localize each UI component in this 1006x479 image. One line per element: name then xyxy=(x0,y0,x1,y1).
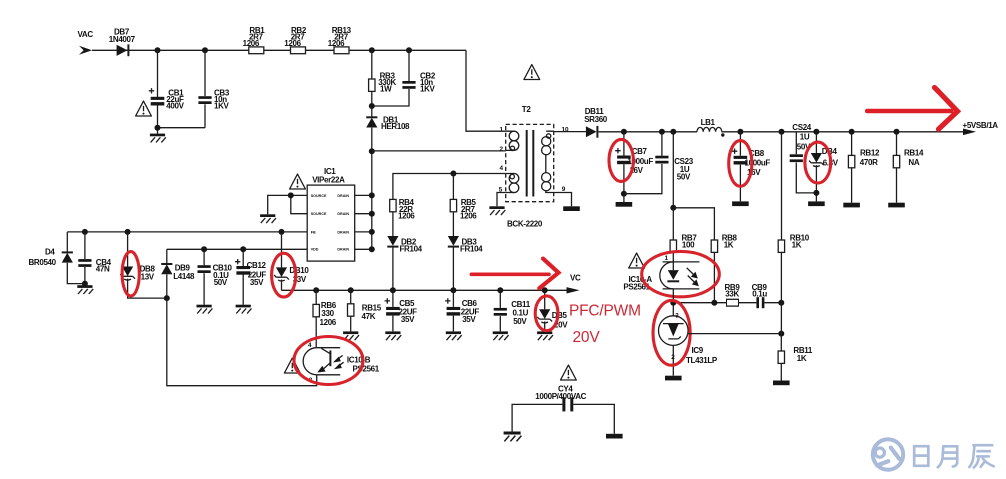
zener diode DB10 xyxy=(281,232,283,268)
node junction CB4/FB rail xyxy=(82,229,88,235)
wire top rail left xyxy=(92,49,466,51)
ground secondary at CY4 right xyxy=(606,434,623,439)
node junction source pins xyxy=(288,192,294,198)
ground secondary under IC9 xyxy=(665,376,682,381)
resistor RB15 xyxy=(350,290,352,304)
resistor RB3 xyxy=(371,50,373,79)
wire FB rail xyxy=(67,231,307,233)
svg-text:FB: FB xyxy=(311,230,316,234)
svg-text:35V: 35V xyxy=(462,315,476,324)
warning triangle near IC10-A xyxy=(629,253,645,268)
svg-text:2: 2 xyxy=(500,146,504,153)
zener diode DB4 xyxy=(815,132,817,153)
wire feedback drop from rail xyxy=(672,132,674,208)
ground primary under RB15 xyxy=(343,331,359,340)
diode IC10-A opto LED xyxy=(663,262,700,289)
zener diode DB5 xyxy=(544,290,546,309)
ground primary at CY4 left xyxy=(504,432,522,442)
svg-text:35V: 35V xyxy=(250,278,264,287)
node junction RB12/rail xyxy=(849,129,855,135)
ground secondary at T2 pin9 xyxy=(563,206,580,211)
node junction drain pin 4 xyxy=(369,246,375,252)
svg-text:VIPer22A: VIPer22A xyxy=(312,175,345,184)
node junction RB3/top rail xyxy=(369,47,375,53)
svg-text:L4148: L4148 xyxy=(173,272,195,281)
svg-text:NA: NA xyxy=(908,158,919,167)
resistor RB4 xyxy=(390,199,396,211)
capacitor CB10 xyxy=(203,249,205,304)
svg-text:VC: VC xyxy=(570,274,581,283)
node junction DB3/CB6/VC rail xyxy=(450,287,456,293)
svg-text:SOURCE: SOURCE xyxy=(311,194,327,198)
red circle annotation around DB4 xyxy=(805,142,831,183)
node junction RB10 drop/rail xyxy=(779,129,785,135)
watermark logo circle xyxy=(873,439,903,469)
red circle annotation around IC10-B xyxy=(294,337,363,385)
wire SOURCE pins to ground xyxy=(268,195,308,214)
wire IC9 cathode to ground xyxy=(672,345,674,375)
capacitor CB8 xyxy=(739,132,741,202)
red circle annotation around CB7 xyxy=(609,139,633,181)
wire T2 pin10 out xyxy=(554,131,586,133)
svg-text:1000uF: 1000uF xyxy=(745,159,771,168)
svg-text:1206: 1206 xyxy=(320,318,337,327)
svg-text:1000P/400VAC: 1000P/400VAC xyxy=(535,392,586,401)
resistor RB6 xyxy=(315,290,317,304)
diode D4 BR0540 xyxy=(66,232,68,252)
capacitor CB12 xyxy=(242,249,244,304)
watermark character yue xyxy=(938,446,957,467)
wire secondary output rail xyxy=(598,131,963,133)
ground primary at IC1 source xyxy=(260,214,276,223)
transformer T2 primary winding pins 1-2 xyxy=(506,131,515,150)
svg-text:1000uF: 1000uF xyxy=(627,157,653,166)
ground secondary under CB8 xyxy=(732,201,749,206)
svg-text:1K: 1K xyxy=(724,241,734,250)
ground primary under CB10 xyxy=(197,305,213,314)
node junction RB8 bottom xyxy=(711,300,717,306)
node junction DB5/VC rail xyxy=(542,287,548,293)
wire IC9 ref line xyxy=(688,333,781,335)
capacitor CS23 xyxy=(624,132,662,194)
warning triangle above CY4 xyxy=(561,365,577,380)
warning triangle near IC1 xyxy=(290,174,306,189)
node junction RB3/CB2/DB1 xyxy=(369,103,375,109)
capacitor CB5 xyxy=(392,290,394,331)
node junction CB12/VDD rail xyxy=(240,246,246,252)
resistor RB2 xyxy=(291,47,306,54)
svg-text:47N: 47N xyxy=(96,265,110,274)
svg-text:FR104: FR104 xyxy=(460,244,483,253)
svg-text:VDD: VDD xyxy=(311,248,319,252)
ground primary under DB5 xyxy=(537,331,553,340)
ground primary under CB4 xyxy=(84,284,86,286)
wire DRAIN pins to drain vertical xyxy=(355,195,372,249)
resistor RB10 xyxy=(781,132,783,240)
svg-text:4: 4 xyxy=(308,342,312,349)
inductor LB1 xyxy=(697,127,722,131)
wire T2 pin4 line xyxy=(393,174,506,200)
node junction LED cathode / RB9 xyxy=(670,300,676,306)
svg-text:DRAIN: DRAIN xyxy=(337,194,349,198)
ground primary at T2 pin5 xyxy=(489,206,505,215)
red circle annotation around DB10 xyxy=(272,253,296,297)
svg-text:35V: 35V xyxy=(401,315,415,324)
svg-text:4: 4 xyxy=(500,165,504,172)
resistor RB9 xyxy=(727,299,739,306)
node junction CS23/rail xyxy=(659,129,665,135)
svg-text:1KV: 1KV xyxy=(214,102,230,111)
svg-text:VAC: VAC xyxy=(78,30,94,39)
resistor RB8 xyxy=(711,240,717,252)
red arrow annotation at output xyxy=(867,109,951,114)
transformer T2 secondary winding pins 10-9 xyxy=(546,131,554,192)
svg-text:1206: 1206 xyxy=(243,39,260,48)
node junction DB4/rail xyxy=(813,129,819,135)
node junction CB2/top rail xyxy=(406,47,412,53)
svg-text:400V: 400V xyxy=(166,102,184,111)
node junction RB14/rail xyxy=(894,129,900,135)
node junction DB10/FB rail xyxy=(279,229,285,235)
node junction DB8/DB9 bottom xyxy=(164,295,170,301)
svg-text:PFC/PWM: PFC/PWM xyxy=(569,303,641,320)
wire CB1/CB3 bottom join xyxy=(158,128,206,134)
svg-text:D4: D4 xyxy=(45,248,55,257)
node junction CB10/VDD rail xyxy=(201,246,207,252)
node junction CB7/rail xyxy=(621,129,627,135)
svg-text:1206: 1206 xyxy=(284,39,301,48)
node junction CS24/DB4 bottom xyxy=(813,190,819,196)
svg-text:50V: 50V xyxy=(214,278,228,287)
svg-text:IC9: IC9 xyxy=(692,346,704,355)
node junction ref/RB10-RB11 xyxy=(778,331,784,337)
capacitor CB6 xyxy=(452,290,454,331)
svg-text:1206: 1206 xyxy=(398,212,415,221)
svg-text:50V: 50V xyxy=(677,173,691,182)
ground primary under CB5 xyxy=(385,331,401,340)
wire top rail right corner to T2 pin1 xyxy=(466,50,506,131)
node junction CB9/RB10 line xyxy=(778,300,784,306)
svg-text:DRAIN: DRAIN xyxy=(337,248,349,252)
svg-text:1K: 1K xyxy=(792,241,802,250)
resistor RB7 xyxy=(672,208,674,240)
ground primary under CB1 xyxy=(150,134,166,143)
svg-text:1K: 1K xyxy=(797,354,807,363)
ground secondary under RB11 xyxy=(773,381,790,386)
ground secondary under CB7 xyxy=(623,194,625,202)
svg-text:T2: T2 xyxy=(522,105,532,114)
wire VC arrowhead xyxy=(567,287,580,293)
svg-text:BR0540: BR0540 xyxy=(29,258,57,267)
op-amp U1 / controller IC1 VIPer22A box xyxy=(307,185,355,261)
svg-text:1206: 1206 xyxy=(328,39,345,48)
diode DB7 xyxy=(117,45,128,56)
ground primary under CB6 xyxy=(446,331,462,340)
resistor RB1 xyxy=(249,47,264,54)
red circle annotation around IC10-A xyxy=(642,251,720,296)
wire VDD rail xyxy=(167,248,307,250)
wire opto loop left xyxy=(167,298,317,386)
zener diode DB8 xyxy=(127,232,129,267)
diode DB2 FR104 xyxy=(387,236,398,247)
capacitor CB4 xyxy=(84,232,86,284)
svg-text:DB10: DB10 xyxy=(289,266,309,275)
capacitor CS24 xyxy=(796,132,816,193)
resistor RB13 xyxy=(334,47,349,54)
capacitor CB11 xyxy=(499,290,501,331)
red circle annotation around IC9 xyxy=(653,300,690,365)
svg-text:+5VSB/1A: +5VSB/1A xyxy=(963,121,999,130)
capacitor CB7 xyxy=(623,132,625,194)
capacitor CB9 xyxy=(756,297,759,308)
ground secondary under DB4 xyxy=(808,201,825,206)
wire VAC input arrow xyxy=(79,46,92,55)
node junction CB1/top rail xyxy=(155,47,161,53)
svg-text:BCK-2220: BCK-2220 xyxy=(507,220,543,229)
wire RB8 branch top xyxy=(673,208,714,240)
svg-text:SR360: SR360 xyxy=(584,115,608,124)
resistor RB14 xyxy=(896,132,898,156)
node junction CB4 bottom xyxy=(82,281,88,287)
node junction CB7 bottom xyxy=(621,191,627,197)
transformer T2 core lines xyxy=(527,130,534,197)
watermark character ri xyxy=(914,446,928,466)
node junction RB5 / pin4 line xyxy=(450,171,456,177)
node junction CB3/top rail xyxy=(202,47,208,53)
diode DB9 L4148 xyxy=(166,249,168,263)
svg-text:1: 1 xyxy=(665,255,669,262)
transformer T2 aux winding pins 4-5 xyxy=(506,174,515,193)
svg-text:1N4007: 1N4007 xyxy=(109,35,136,44)
svg-text:1W: 1W xyxy=(380,85,392,94)
svg-text:LB1: LB1 xyxy=(701,118,716,127)
wire T2 pin2 line xyxy=(372,150,506,152)
svg-text:CS24: CS24 xyxy=(792,123,812,132)
red circle annotation around CB8 xyxy=(729,141,752,187)
resistor RB11 xyxy=(780,334,782,351)
warning triangle near CB1 xyxy=(136,101,152,116)
svg-text:RB12: RB12 xyxy=(860,148,880,157)
watermark character chen xyxy=(969,445,994,467)
svg-text:10: 10 xyxy=(562,127,570,134)
node junction drain pin 3 xyxy=(369,229,375,235)
svg-text:DB5: DB5 xyxy=(552,311,568,320)
wire RB9 row xyxy=(673,302,781,304)
ground secondary under RB14 xyxy=(888,203,905,208)
svg-text:FR104: FR104 xyxy=(400,244,423,253)
wire T2 pin5 to ground xyxy=(497,193,506,207)
svg-text:HER108: HER108 xyxy=(381,122,410,131)
red arrow annotation to VC xyxy=(471,272,549,276)
diode DB3 FR104 xyxy=(448,236,459,247)
diode DB1 xyxy=(371,106,373,117)
node junction drain pin 1 xyxy=(369,192,375,198)
svg-text:20V: 20V xyxy=(573,329,601,346)
svg-text:470R: 470R xyxy=(860,158,878,167)
warning triangle above T2 xyxy=(524,65,540,80)
svg-text:DRAIN: DRAIN xyxy=(337,230,349,234)
svg-text:RB14: RB14 xyxy=(904,148,924,157)
wire output arrowhead xyxy=(963,129,976,136)
capacitor CY4 xyxy=(562,397,565,411)
transistor IC10-B phototransistor xyxy=(317,348,341,375)
node junction drain pin 2 xyxy=(369,211,375,217)
capacitor CB1 xyxy=(157,50,159,97)
resistor RB5 xyxy=(452,174,454,200)
svg-text:1: 1 xyxy=(500,127,504,134)
red circle annotation around DB8 xyxy=(122,252,139,296)
node junction DB2/CB5/VC rail xyxy=(390,287,396,293)
svg-text:1U: 1U xyxy=(800,133,810,142)
svg-text:47K: 47K xyxy=(362,312,376,321)
node junction CB1 bottom xyxy=(155,125,161,131)
resistor RB12 xyxy=(851,132,853,156)
wire VC rail xyxy=(282,289,568,291)
svg-text:DRAIN: DRAIN xyxy=(337,212,349,216)
capacitor CB3 xyxy=(204,50,206,127)
ground secondary under RB12 xyxy=(843,203,860,208)
svg-text:TL431LP: TL431LP xyxy=(686,356,718,365)
svg-text:50V: 50V xyxy=(513,317,527,326)
svg-text:CB12: CB12 xyxy=(247,261,267,270)
svg-text:1KV: 1KV xyxy=(420,85,436,94)
wire LED cathode down xyxy=(672,289,674,316)
node junction CB11/VC rail xyxy=(497,287,503,293)
svg-text:SOURCE: SOURCE xyxy=(311,212,327,216)
svg-text:0.1u: 0.1u xyxy=(752,289,767,298)
node junction RB6/VC rail xyxy=(313,287,319,293)
svg-text:13V: 13V xyxy=(141,273,155,282)
ground primary under CB12 xyxy=(236,305,252,314)
svg-text:9: 9 xyxy=(562,186,566,193)
red circle annotation around DB5 xyxy=(535,296,558,331)
node junction DB8/FB rail xyxy=(125,229,131,235)
warning triangle near IC10-B xyxy=(284,358,300,373)
node junction feedback drop/rail xyxy=(670,129,676,135)
svg-text:1206: 1206 xyxy=(460,212,477,221)
transformer T2 dashed box xyxy=(506,124,554,201)
node junction RB7/RB8 top xyxy=(670,205,676,211)
capacitor CB2 xyxy=(372,50,409,106)
svg-text:IC10-B: IC10-B xyxy=(347,356,371,365)
wire T2 pin9 to ground xyxy=(554,193,572,207)
svg-text:33K: 33K xyxy=(725,289,739,298)
svg-text:100: 100 xyxy=(682,241,695,250)
node junction CB8/rail xyxy=(737,129,743,135)
ground primary under CB11 xyxy=(493,331,509,340)
svg-text:330: 330 xyxy=(321,309,334,318)
node junction T2 pin2 / drain line xyxy=(369,148,375,154)
diode DB11 SR360 xyxy=(586,126,597,137)
node junction RB15/VC rail xyxy=(348,287,354,293)
wire drain vertical xyxy=(371,151,373,249)
